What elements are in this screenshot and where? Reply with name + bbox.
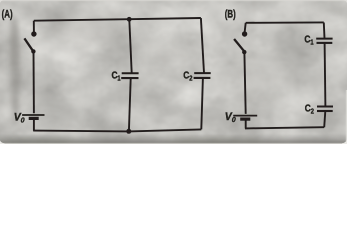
capacitor C1 (A): top plate bbox=[122, 72, 139, 74]
wire: B left vertical above switch bbox=[245, 23, 246, 32]
wire: C1 branch lower bbox=[129, 78, 131, 131]
wire: A left vertical below switch bbox=[33, 52, 35, 114]
capacitor C1 (B): bottom plate bbox=[317, 42, 333, 44]
switch S (A): blade bbox=[24, 38, 32, 50]
node: A top junction dot bbox=[127, 17, 132, 22]
right white sliver bbox=[346, 90, 347, 144]
background blotches bbox=[10, 0, 347, 128]
capacitor C1 (A): bottom plate bbox=[121, 77, 138, 79]
bottom light edge bbox=[0, 142, 347, 145]
battery V0 (A): short negative plate bbox=[29, 117, 39, 120]
node: A bottom junction dot bbox=[126, 129, 131, 134]
battery V0 (B): short negative plate bbox=[240, 117, 250, 120]
white rounded corners bbox=[0, 141, 5, 145]
switch S (B): blade bbox=[234, 39, 244, 51]
wire: A left vertical above switch bbox=[33, 21, 35, 32]
wire: B battery to bottom rail bbox=[245, 120, 247, 128]
wire: B bottom horizontal bbox=[245, 127, 324, 128]
wire: C2 branch upper bbox=[201, 18, 204, 73]
wire: B right vertical bottom segment bbox=[324, 111, 325, 127]
wire: C1 branch upper bbox=[129, 20, 131, 74]
wire: B top horizontal bbox=[246, 21, 324, 23]
battery V0 (B): long positive plate bbox=[233, 115, 257, 117]
wire: B right vertical middle segment bbox=[324, 43, 327, 106]
bottom shadow band bbox=[0, 133, 347, 144]
wire: C2 branch lower bbox=[201, 78, 203, 129]
svg-text:(A): (A) bbox=[2, 8, 13, 21]
wire: A battery to bottom rail bbox=[33, 120, 35, 131]
capacitor C1 (B): top plate bbox=[316, 38, 332, 40]
wire: A top horizontal bbox=[34, 18, 201, 21]
wire: A bottom horizontal bbox=[33, 129, 201, 131]
battery V0 (A): long positive plate bbox=[22, 114, 44, 116]
svg-text:(B): (B) bbox=[225, 8, 236, 21]
capacitor C2 (B): top plate bbox=[317, 106, 333, 108]
switch S (B): upper contact dot bbox=[242, 31, 247, 36]
top light edge bbox=[0, 0, 347, 1]
paper background bbox=[0, 0, 347, 144]
capacitor C2 (B): bottom plate bbox=[317, 110, 333, 112]
switch S (B): lower contact dot bbox=[242, 50, 246, 54]
capacitor C2 (A): bottom plate bbox=[194, 77, 211, 79]
wire: B left vertical below switch bbox=[244, 52, 245, 114]
wire: B right vertical top segment bbox=[323, 23, 326, 39]
switch S (A): upper contact dot bbox=[31, 31, 36, 36]
capacitor C2 (A): top plate bbox=[194, 72, 211, 74]
switch S (A): lower contact dot bbox=[31, 49, 35, 53]
